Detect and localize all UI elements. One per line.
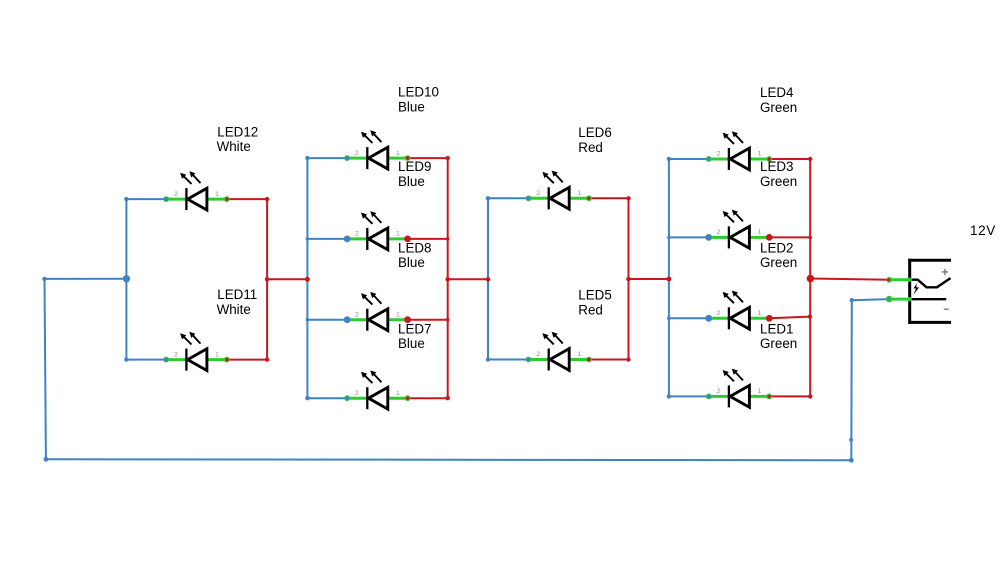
wire: blue lead to LED5 pin2: [488, 359, 529, 361]
wire: left vertical drop: [45, 279, 46, 459]
svg-text:LED1: LED1: [760, 321, 794, 336]
svg-text:LED11: LED11: [217, 287, 257, 302]
svg-text:LED4: LED4: [760, 85, 794, 100]
node: green group bus corners: [667, 157, 813, 399]
wire: blue feed to battery minus: [852, 299, 889, 300]
node: green group output junction (big red): [807, 275, 815, 283]
node: LED3 pin dots (big): [705, 234, 772, 241]
wire: red lead from LED5 pin1: [589, 359, 629, 361]
wire: blue group right red bus: [447, 158, 449, 398]
node: link dots white-blue: [265, 277, 310, 282]
node: LED5 pin dots: [526, 357, 590, 361]
node: LED1 pin dots: [707, 394, 771, 398]
battery minus green pin: [886, 296, 910, 303]
node: LED7 pin dots: [345, 396, 409, 400]
node: blue group bus T dots: [306, 237, 450, 321]
LED9 (Blue): [344, 211, 410, 250]
wire: green group left blue bus: [668, 159, 670, 396]
wire: red lead from LED11 pin1: [227, 359, 267, 361]
wire: red lead from LED6 pin1: [589, 197, 629, 199]
node: bottom right corner dots: [849, 298, 854, 463]
wire: red link blue group to red group: [448, 278, 488, 280]
node: LED11 pin dots: [164, 358, 229, 362]
LED10 (Blue): [344, 130, 410, 169]
node: LED6 pin dots: [526, 196, 590, 200]
wire: red group left blue bus: [487, 198, 489, 359]
svg-text:LED3: LED3: [760, 159, 794, 174]
node: white group junction (big blue): [123, 275, 130, 282]
wire: white group right red bus: [266, 199, 268, 360]
node: green group bus T dots: [667, 236, 812, 321]
wire: red lead row1: [408, 157, 448, 159]
svg-text:White: White: [217, 139, 251, 154]
svg-text:LED12: LED12: [217, 124, 258, 139]
svg-text:Blue: Blue: [398, 336, 425, 351]
node: link dots red-green: [626, 277, 671, 282]
wire: blue lead to LED12 pin2: [126, 198, 166, 200]
node: red group bus corners: [486, 196, 631, 362]
wire: red lead row4: [408, 397, 448, 399]
wire: blue lead to LED11 pin2: [126, 359, 166, 361]
wire: blue lead row3: [307, 319, 347, 321]
svg-text:LED7: LED7: [398, 321, 432, 336]
wire: blue lead row1: [307, 157, 347, 159]
LED8 (Blue): [344, 292, 410, 331]
wire: blue lead row1: [669, 158, 709, 160]
svg-text:Green: Green: [760, 255, 797, 270]
svg-text:Red: Red: [578, 302, 603, 317]
node: red dot at battery plus: [887, 278, 890, 281]
wire: red lead from LED12 pin1: [227, 198, 267, 200]
node: LED2 pin dots (big): [705, 315, 772, 322]
LED3 (Green): [706, 210, 772, 249]
wire: red group right red bus: [628, 198, 630, 359]
node: blue dot at battery minus: [887, 298, 890, 301]
svg-text:Green: Green: [760, 336, 797, 351]
wire: red link white group to blue group: [267, 278, 307, 280]
wire: blue lead row3: [669, 317, 709, 319]
svg-text:Blue: Blue: [398, 255, 425, 270]
wire: red feed to battery plus: [810, 279, 889, 280]
svg-text:White: White: [217, 302, 251, 317]
svg-text:Green: Green: [760, 174, 797, 189]
LED1 (Green): [706, 369, 772, 408]
node: blue group bus corners: [305, 156, 450, 400]
wire: red lead row3: [769, 317, 810, 319]
battery pin terminal squares: [908, 278, 912, 302]
wire: red lead row1: [769, 158, 810, 160]
svg-text:LED5: LED5: [578, 287, 612, 302]
LED11 (White): [163, 332, 229, 371]
wire: blue branch left from white group junction: [45, 278, 127, 280]
LED4 (Green): [706, 131, 772, 170]
battery plus sign: [942, 269, 948, 275]
node: left branch corner dots: [42, 277, 48, 462]
wire: blue group left blue bus: [306, 158, 308, 398]
wire: red lead row4: [769, 395, 810, 397]
svg-text:Blue: Blue: [398, 99, 425, 114]
wire: green group right red bus: [809, 159, 811, 396]
LED7 (Blue): [344, 370, 410, 409]
node: LED4 pin dots: [707, 157, 771, 161]
svg-text:Blue: Blue: [398, 174, 425, 189]
svg-text:Green: Green: [760, 100, 797, 115]
battery body frame: [908, 259, 951, 324]
wire: red link red group to green group: [629, 278, 669, 280]
node: LED9 pin dots (big): [344, 236, 411, 243]
battery plus contact spring: [910, 278, 951, 287]
svg-text:12V: 12V: [970, 223, 996, 238]
wire: blue lead to LED6 pin2: [488, 197, 529, 199]
battery lightning bolt: [913, 283, 919, 295]
battery minus contact: [910, 298, 947, 300]
svg-text:LED6: LED6: [578, 125, 612, 140]
svg-text:LED9: LED9: [398, 159, 432, 174]
svg-text:LED2: LED2: [760, 240, 794, 255]
battery minus sign: [944, 308, 949, 310]
wire: red lead row2: [408, 238, 448, 240]
battery plus green pin: [886, 277, 909, 283]
LED5 (Red): [526, 332, 592, 371]
node: LED8 pin dots (big): [344, 316, 411, 323]
node: link dots blue-red: [445, 277, 490, 282]
wire: long bottom return run: [46, 458, 851, 461]
wire: blue lead row4: [669, 395, 709, 397]
wire: blue lead row2: [669, 236, 709, 238]
wire: blue lead row4: [307, 397, 347, 399]
LED2 (Green): [706, 291, 772, 330]
svg-text:Red: Red: [578, 140, 603, 155]
LED6 (Red): [526, 171, 592, 210]
LED12 (White): [163, 171, 229, 210]
wire: blue lead row2: [307, 238, 347, 240]
wire: white group left blue bus: [125, 199, 127, 360]
node: white group bus corners: [124, 197, 269, 362]
node: LED12 pin dots: [164, 197, 229, 201]
svg-text:LED8: LED8: [398, 240, 432, 255]
svg-text:LED10: LED10: [398, 85, 439, 100]
wire: right vertical riser: [850, 300, 853, 460]
node: LED10 pin dots: [345, 156, 409, 160]
wire: red lead row2: [769, 236, 810, 238]
wire: red lead row3: [408, 319, 448, 321]
